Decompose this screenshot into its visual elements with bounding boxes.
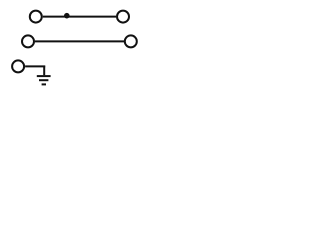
terminal circle 2R (lower level, right clamp) (125, 35, 137, 47)
wire (PE vertical drop) (43, 66, 45, 76)
terminal circle 1L (upper level, left clamp) (30, 11, 42, 23)
ground bar 1 (37, 75, 51, 77)
wire (PE horizontal) (25, 65, 45, 67)
wire (lower level) (35, 40, 124, 42)
terminal circle 1R (upper level, right clamp) (117, 11, 129, 23)
terminal circle PE (earth clamp) (12, 60, 24, 72)
terminal circle 2L (lower level, left clamp) (22, 35, 34, 47)
wire (upper level) (43, 16, 116, 18)
ground bar 2 (39, 79, 48, 81)
ground bar 3 (42, 83, 46, 85)
junction dot (upper level node) (64, 13, 70, 19)
